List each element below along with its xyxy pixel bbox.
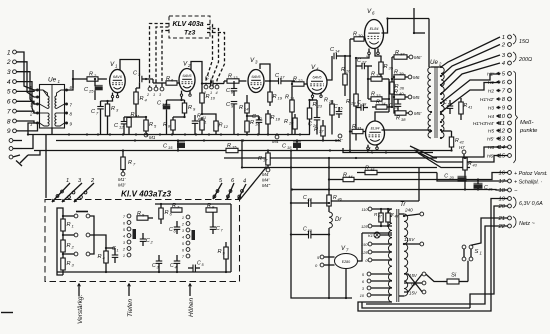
capacitor C18 — [282, 141, 301, 151]
input terminal 5 — [7, 89, 17, 96]
terminal 7o (H2) — [488, 89, 512, 95]
plug arrows 5 6 4 — [213, 178, 246, 200]
svg-text:20: 20 — [497, 204, 505, 210]
triode V1 — [110, 61, 126, 93]
wire left vertical 350 — [349, 39, 351, 153]
svg-text:R: R — [324, 98, 328, 104]
wire V6 cathode — [355, 55, 369, 88]
svg-text:R: R — [376, 100, 380, 106]
svg-text:S: S — [475, 249, 479, 255]
svg-text:H1: H1 — [488, 80, 494, 86]
svg-text:C: C — [169, 227, 173, 233]
capacitor C26 — [308, 100, 320, 135]
capacitor C28 — [356, 100, 368, 111]
svg-text:200Ω: 200Ω — [518, 57, 532, 63]
svg-text:R: R — [464, 103, 468, 109]
capacitor C15 — [163, 141, 185, 151]
svg-text:6,3V 0,6A: 6,3V 0,6A — [519, 201, 543, 207]
brace 15 ohm — [513, 34, 529, 45]
svg-text:R: R — [396, 116, 400, 122]
terminal 4o — [502, 61, 512, 67]
brace 200 ohm — [513, 52, 532, 63]
input selector terminal a — [9, 139, 22, 143]
svg-text:19: 19 — [278, 96, 283, 101]
wire stage links — [0, 0, 1, 1]
wire V1 grid — [72, 70, 74, 88]
svg-text:40: 40 — [399, 91, 404, 96]
resistor R3b — [57, 208, 75, 275]
resistor R24 — [284, 114, 297, 135]
svg-text:M5': M5' — [414, 111, 421, 116]
resistor R17 — [258, 151, 270, 172]
svg-text:R: R — [239, 105, 243, 111]
wire bus C — [34, 149, 452, 151]
resistor R5 — [136, 116, 157, 140]
terminal 5o (H1') — [487, 72, 511, 78]
terminal 11o (H1'H3'H4') — [473, 121, 512, 127]
capacitor C21 — [474, 178, 493, 191]
brace Messpunkte — [514, 71, 539, 163]
arrow Hoehen — [188, 284, 195, 318]
svg-text:20: 20 — [449, 176, 455, 180]
resistor R3 — [105, 104, 119, 135]
svg-text:22: 22 — [307, 198, 313, 202]
svg-text:R: R — [140, 96, 144, 102]
svg-text:R: R — [384, 64, 388, 70]
input terminal 1 — [7, 49, 17, 56]
input selector terminal c — [9, 155, 20, 159]
wire V2 anode — [191, 62, 202, 94]
svg-text:H7: H7 — [459, 145, 465, 150]
svg-text:1: 1 — [7, 49, 11, 56]
resistor R19 — [268, 88, 283, 106]
svg-text:C: C — [443, 100, 447, 106]
terminal 240V — [403, 208, 424, 218]
svg-text:4: 4 — [7, 79, 11, 86]
svg-text:4: 4 — [182, 236, 184, 240]
svg-text:C: C — [170, 263, 174, 269]
svg-text:14: 14 — [335, 49, 340, 54]
capacitor C25 — [84, 78, 103, 100]
svg-text:H3: H3 — [488, 106, 494, 112]
resistor R2 — [72, 72, 107, 82]
svg-text:R: R — [111, 106, 115, 112]
capacitor C15b — [334, 104, 343, 118]
capacitor C9 — [202, 76, 224, 87]
svg-text:H5': H5' — [487, 137, 495, 143]
arrow Tiefen — [127, 284, 134, 318]
svg-text:24: 24 — [288, 121, 294, 126]
input terminal 7 — [7, 108, 17, 115]
wire V3 anode — [260, 64, 271, 88]
resistor R27 — [314, 120, 325, 141]
terminal 13o (H5') — [487, 137, 511, 143]
svg-text:EZ80: EZ80 — [342, 260, 351, 264]
svg-text:17: 17 — [498, 179, 505, 185]
svg-text:R: R — [394, 70, 398, 76]
resistor R10 — [200, 82, 216, 103]
svg-text:EL84: EL84 — [370, 27, 379, 31]
wire plug links dashed — [150, 24, 225, 88]
svg-text:25: 25 — [88, 89, 94, 94]
svg-text:C: C — [197, 261, 201, 267]
svg-text:15: 15 — [339, 107, 343, 111]
svg-text:3: 3 — [7, 69, 11, 76]
svg-text:Tiefen: Tiefen — [127, 299, 134, 317]
resistor R35 — [375, 48, 394, 77]
svg-text:Tz3: Tz3 — [184, 30, 196, 37]
resistor R26 — [341, 55, 351, 96]
wire splitter — [367, 66, 390, 112]
svg-text:23: 23 — [307, 229, 313, 233]
resistor R25 — [324, 98, 334, 135]
choke Dr — [329, 206, 342, 298]
svg-text:H5: H5 — [488, 129, 494, 135]
resistor R18 — [266, 110, 281, 135]
resistor R44 — [343, 173, 354, 182]
capacitor C1 — [105, 246, 119, 263]
resistor R8 — [163, 117, 185, 135]
svg-text:2: 2 — [501, 43, 506, 49]
capacitor C5 — [188, 261, 205, 272]
svg-text:C: C — [303, 227, 307, 233]
svg-text:M3': M3' — [118, 183, 125, 188]
capacitor C17b — [443, 100, 453, 114]
svg-text:M4: M4 — [272, 139, 279, 144]
capacitor C22 — [303, 195, 318, 207]
svg-text:M4: M4 — [262, 172, 269, 177]
svg-text:M6: M6 — [413, 75, 420, 80]
resistor R12 — [202, 103, 229, 135]
triode V3 — [248, 57, 264, 93]
resistor R13 — [224, 74, 246, 84]
svg-text:16: 16 — [498, 171, 505, 177]
svg-text:12: 12 — [224, 124, 229, 129]
capacitor C10b — [226, 102, 237, 135]
wire mains bottom — [358, 262, 491, 311]
svg-text:H1': H1' — [487, 72, 495, 78]
svg-text:M4'': M4'' — [262, 183, 270, 188]
svg-text:4: 4 — [243, 179, 246, 185]
wire bus B — [56, 139, 340, 141]
capacitor C17 — [270, 73, 295, 84]
resistor R46 — [292, 158, 343, 206]
svg-text:H2: H2 — [488, 89, 494, 95]
svg-text:13: 13 — [162, 102, 167, 107]
wire V7 bottom stub — [345, 269, 347, 299]
input terminal 9 — [7, 128, 17, 135]
plug arrows 1 3 2 — [52, 178, 95, 202]
resistor R33 — [368, 92, 389, 102]
svg-text:R: R — [285, 95, 289, 101]
svg-text:Ue: Ue — [48, 77, 57, 84]
transformer Ue2 label — [430, 59, 442, 67]
svg-text:punkte: punkte — [519, 128, 538, 134]
wire heater crossover — [404, 272, 426, 295]
input selector terminal b — [9, 147, 22, 151]
svg-text:Kl.V 403aTz3: Kl.V 403aTz3 — [121, 190, 172, 199]
wire V5 enclosure — [329, 148, 433, 202]
transformer Tr label — [400, 201, 406, 208]
svg-text:R: R — [67, 261, 71, 267]
capacitor C3 — [133, 71, 153, 83]
svg-text:H6': H6' — [487, 154, 495, 160]
capacitor C7 — [91, 101, 104, 135]
capacitor C23 — [303, 227, 318, 239]
svg-text:10: 10 — [211, 96, 216, 101]
wire bus D — [224, 157, 437, 159]
svg-text:4: 4 — [123, 235, 125, 239]
svg-text:Dr: Dr — [335, 217, 342, 223]
capacitor C2 — [140, 233, 154, 246]
resistor R5b — [137, 211, 153, 220]
svg-text:Ue: Ue — [430, 59, 438, 66]
terminal 8o (H1'H2') — [480, 97, 512, 103]
capacitor C7b — [210, 212, 224, 234]
svg-text:19: 19 — [498, 197, 505, 203]
wire volume out — [94, 235, 106, 248]
svg-text:R: R — [166, 76, 170, 82]
resistor R8b — [206, 203, 217, 212]
svg-text:R: R — [271, 115, 275, 121]
wire input fan — [16, 52, 37, 131]
plug contacts V1-V2 — [146, 87, 164, 97]
svg-text:47: 47 — [378, 214, 382, 218]
wire psu verticals — [290, 151, 392, 300]
resistor R14 — [239, 95, 249, 118]
svg-text:34: 34 — [381, 101, 386, 106]
terminal 14o (H6) — [488, 145, 512, 151]
svg-text:R: R — [165, 210, 169, 216]
svg-text:13: 13 — [233, 75, 238, 80]
svg-text:C: C — [357, 100, 361, 106]
capacitor C11 — [192, 115, 207, 135]
resistor R42 — [441, 131, 465, 152]
tube V2 pins — [180, 91, 191, 97]
lamp K1 — [368, 232, 392, 238]
svg-text:R: R — [228, 74, 232, 80]
svg-text:R: R — [163, 122, 167, 128]
arrow Verstaerker — [77, 284, 84, 325]
resistor R48 — [386, 208, 399, 227]
svg-text:17: 17 — [280, 75, 285, 80]
wire tone bottom rail — [57, 204, 231, 273]
svg-text:C: C — [303, 195, 307, 201]
resistor R40 — [393, 77, 420, 100]
svg-text:+ Schallpl. ·: + Schallpl. · — [514, 180, 543, 186]
svg-text:32: 32 — [376, 73, 381, 78]
resistor R4b — [98, 248, 109, 272]
scan artifact bottom left — [1, 312, 13, 314]
svg-text:Netz ~: Netz ~ — [519, 221, 535, 227]
svg-text:R: R — [353, 32, 357, 38]
svg-text:39: 39 — [399, 71, 404, 76]
capacitor C16 — [389, 99, 401, 113]
svg-text:240: 240 — [404, 208, 413, 213]
rectifier terminals — [315, 255, 335, 268]
resistor R38 — [394, 97, 421, 122]
svg-text:R: R — [98, 254, 102, 260]
resistor R11 — [124, 112, 140, 135]
svg-text:1: 1 — [66, 178, 69, 184]
node M4 prime — [335, 134, 342, 143]
terminal 12o (H5) — [488, 129, 512, 135]
switch contacts volume — [62, 212, 94, 256]
svg-text:6AV6: 6AV6 — [312, 76, 322, 80]
resistor R15 — [226, 143, 238, 153]
wire V1 anode — [120, 60, 140, 76]
svg-text:R: R — [468, 161, 472, 167]
svg-text:4: 4 — [175, 266, 177, 270]
svg-text:45: 45 — [370, 167, 375, 172]
svg-text:R: R — [365, 166, 369, 172]
svg-text:10: 10 — [498, 114, 505, 120]
svg-text:M4': M4' — [335, 138, 342, 143]
bass pot terminals — [122, 214, 136, 258]
resistor R37 — [392, 50, 421, 79]
terminal 1o — [502, 35, 512, 41]
svg-text:38: 38 — [401, 117, 406, 122]
svg-text:1: 1 — [480, 251, 482, 256]
svg-text:1: 1 — [502, 35, 505, 41]
svg-text:C: C — [444, 174, 448, 180]
tube V5 pins — [367, 145, 379, 150]
svg-text:44: 44 — [348, 174, 353, 179]
resistor R6 — [153, 76, 180, 85]
terminal 16o +Potoz Verst — [498, 171, 547, 177]
svg-text:Verstärkg.: Verstärkg. — [77, 294, 84, 324]
resistor R29 — [345, 88, 358, 141]
pentode V6 — [365, 8, 384, 49]
svg-text:27: 27 — [361, 60, 367, 65]
svg-text:R: R — [371, 72, 375, 78]
svg-text:C: C — [216, 226, 220, 232]
resistor R39 — [393, 70, 420, 81]
svg-text:31: 31 — [357, 126, 361, 131]
svg-text:1: 1 — [123, 254, 125, 258]
svg-text:M5: M5 — [413, 95, 420, 100]
svg-text:41: 41 — [468, 106, 472, 110]
terminal 20o — [497, 204, 511, 210]
node M1' M3' — [118, 177, 125, 188]
svg-text:2: 2 — [6, 59, 11, 66]
svg-text:15: 15 — [168, 145, 173, 150]
resistor R9b — [218, 242, 229, 272]
svg-text:R: R — [128, 160, 132, 166]
svg-text:18: 18 — [498, 188, 505, 194]
svg-text:R: R — [341, 67, 345, 73]
svg-text:17: 17 — [263, 158, 268, 163]
svg-text:33: 33 — [376, 93, 381, 98]
svg-text:R: R — [343, 173, 347, 179]
svg-text:R: R — [197, 114, 201, 120]
svg-text:1: 1 — [117, 249, 119, 253]
resistor R43 — [463, 157, 478, 190]
resistor R6b — [159, 204, 173, 224]
resistor R36 — [390, 78, 405, 108]
svg-text:4: 4 — [216, 91, 218, 95]
wire Ue1 secondary to V1 — [46, 79, 73, 198]
transformer Ue1 — [29, 85, 72, 129]
svg-text:M1': M1' — [118, 177, 125, 182]
svg-text:R: R — [371, 92, 375, 98]
svg-text:6AV6: 6AV6 — [182, 74, 192, 78]
tone unit label Kl.V 403a Tz3 — [121, 190, 172, 199]
resistor R1 — [61, 212, 74, 240]
node M4 under V3 — [272, 135, 279, 144]
svg-text:13: 13 — [498, 137, 505, 143]
svg-text:M6': M6' — [414, 55, 421, 60]
resistor R47 — [374, 208, 383, 227]
svg-text:+ Potoz Verst.: + Potoz Verst. — [514, 171, 548, 177]
svg-text:36: 36 — [400, 86, 405, 91]
svg-text:1: 1 — [210, 91, 212, 95]
svg-text:18: 18 — [276, 117, 281, 122]
svg-text:EL84: EL84 — [371, 127, 380, 131]
svg-text:2: 2 — [29, 112, 33, 117]
svg-text:22: 22 — [297, 78, 303, 83]
wire 21o 22o mains — [366, 218, 508, 304]
terminal 21o — [497, 216, 511, 222]
terminal 9o (H3) — [488, 106, 512, 112]
resistor R21 — [285, 83, 294, 135]
svg-text:22: 22 — [497, 224, 505, 230]
svg-text:R: R — [313, 102, 317, 108]
resistor R32 — [368, 72, 389, 82]
terminal 19o — [498, 197, 511, 203]
switch S1 — [462, 245, 482, 281]
transformer Ue1 label — [48, 77, 61, 85]
input terminal 8 — [7, 118, 17, 125]
svg-text:37: 37 — [400, 52, 405, 57]
svg-text:C: C — [152, 263, 156, 269]
svg-text:12: 12 — [119, 125, 124, 130]
svg-text:7: 7 — [7, 108, 11, 115]
input terminal 6 — [7, 99, 17, 106]
fuse Si — [426, 273, 468, 285]
resistor R22 — [292, 77, 307, 87]
svg-text:1: 1 — [182, 216, 184, 220]
svg-text:R: R — [219, 123, 223, 129]
svg-text:11: 11 — [136, 114, 140, 119]
svg-text:21: 21 — [497, 216, 505, 222]
svg-text:6: 6 — [7, 99, 11, 106]
svg-text:R: R — [455, 138, 459, 144]
svg-text:110: 110 — [361, 208, 368, 212]
wire Ue1 ground leg — [27, 123, 38, 136]
wire 17o line — [437, 173, 508, 182]
wire V4 anode — [328, 56, 333, 80]
svg-text:M4': M4' — [262, 178, 269, 183]
input terminal 2 — [6, 59, 17, 66]
wire selector to bus — [22, 135, 40, 156]
svg-text:15Ω: 15Ω — [519, 39, 529, 45]
tube V6 pins — [366, 49, 383, 60]
svg-text:R: R — [284, 119, 288, 125]
pentode V5 — [366, 121, 385, 155]
tube V1 pins — [111, 93, 118, 98]
svg-text:H1'H3'H4': H1'H3'H4' — [473, 121, 495, 127]
svg-text:35: 35 — [389, 66, 394, 71]
svg-text:R: R — [188, 105, 192, 111]
terminal 15o (H6') — [487, 154, 511, 160]
svg-text:Si: Si — [451, 273, 457, 279]
wire feeds to tone unit — [240, 139, 267, 199]
svg-text:R: R — [250, 120, 254, 126]
resistor R9 — [182, 100, 196, 118]
svg-text:KLV 403a: KLV 403a — [173, 21, 204, 28]
svg-text:15V: 15V — [409, 291, 418, 296]
